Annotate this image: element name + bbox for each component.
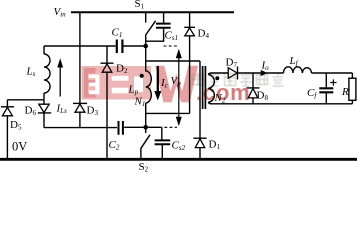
svg-text:D3: D3 [87, 105, 99, 117]
svg-text:D7: D7 [226, 57, 238, 69]
svg-text:D5: D5 [10, 119, 22, 131]
capacitor C2 [119, 121, 123, 135]
svg-text:Cs1: Cs1 [165, 30, 179, 42]
transformer core [203, 66, 206, 109]
arrow ILs [59, 65, 61, 97]
svg-text:Cf: Cf [307, 87, 317, 99]
svg-text:R: R [341, 86, 349, 98]
wire bottom rail 0V [0, 158, 357, 161]
arrow Vp double [178, 52, 180, 123]
arrowhead Vp bottom [176, 117, 182, 127]
svg-text:ILs: ILs [56, 103, 68, 115]
capacitor C1 [117, 40, 123, 54]
watermark chinese gray chars [193, 73, 284, 87]
svg-text:S2: S2 [139, 161, 149, 172]
svg-text:Io: Io [261, 60, 270, 72]
svg-text:S1: S1 [135, 0, 145, 10]
svg-text:Vin: Vin [54, 6, 67, 18]
switch S1 [146, 12, 156, 46]
wire C2 node wire y127.3 [44, 127, 162, 140]
wire dashed bottom [164, 126, 177, 128]
diode D7 [228, 68, 237, 79]
winding N1 Lp branch [145, 46, 147, 127]
arrowhead ILs [57, 58, 63, 67]
svg-text:C1: C1 [112, 27, 123, 39]
wire right branch x200 with D1 [193, 61, 206, 159]
switch S2 [141, 127, 150, 159]
svg-text:D4: D4 [198, 28, 210, 40]
wire C1 node wire y46 [44, 45, 146, 47]
wire left branch x80 upper [79, 12, 81, 103]
capacitor Cs2 [155, 140, 171, 144]
svg-text:Lf: Lf [289, 55, 299, 67]
capacitor Cf [325, 73, 327, 104]
arrowhead Ic [154, 91, 161, 101]
arrowhead Io [261, 70, 268, 76]
capacitor Cs1 [146, 12, 164, 41]
diode D2 branch [101, 46, 114, 159]
diode D6 [38, 100, 51, 128]
arrow Ic [157, 66, 159, 92]
arrowhead Vp top [176, 49, 182, 59]
wire y61 to right [146, 60, 200, 62]
svg-text:D8: D8 [257, 90, 269, 102]
svg-text:D6: D6 [25, 105, 37, 117]
diode D5 [1, 100, 14, 159]
wire secondary top y73 [211, 72, 228, 74]
diode D4 branch [184, 12, 195, 113]
node dot S1 junction [143, 44, 148, 49]
winding N2 [208, 73, 211, 104]
svg-text:0V: 0V [12, 140, 27, 154]
diode D8 branch [247, 73, 260, 104]
plus sign Cf [330, 79, 336, 85]
resistor R [351, 73, 353, 104]
inductor Ls [44, 46, 50, 100]
watermark EEPW band [82, 66, 199, 103]
wire top rail Vin [71, 11, 234, 13]
inductor Lf [284, 67, 312, 73]
node dot S2 junction [143, 125, 148, 130]
wire secondary bottom y103.8 [211, 103, 352, 105]
svg-text:D1: D1 [209, 139, 221, 151]
polarity dot N1 [140, 74, 144, 78]
wire dashed top [164, 45, 178, 47]
svg-text:Vp: Vp [171, 75, 182, 87]
svg-text:C2: C2 [109, 139, 120, 151]
svg-text:Cs2: Cs2 [172, 140, 186, 152]
diode D1 [195, 139, 204, 148]
svg-text:Ls: Ls [26, 66, 36, 78]
polarity dot N2 [215, 76, 219, 80]
wire after D7 [238, 72, 353, 74]
diode D3 [73, 102, 87, 104]
wire y113.4 [146, 112, 190, 114]
wire left branch x80 lower [79, 112, 81, 127]
svg-text:D2: D2 [116, 63, 128, 75]
wire D5-D6 link y99.8 [7, 99, 44, 101]
